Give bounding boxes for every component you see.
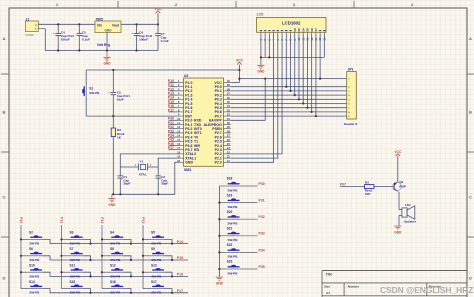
wire VCC rail to JP1 [239, 35, 346, 79]
wire net P34 [169, 136, 178, 138]
svg-text:S1: S1 [89, 86, 93, 90]
junction S8 column [101, 255, 103, 257]
net label P14 [177, 240, 183, 244]
svg-text:P13: P13 [141, 217, 145, 223]
svg-text:LCD1602: LCD1602 [282, 21, 301, 26]
svg-text:29: 29 [227, 125, 230, 129]
svg-text:SW-PB: SW-PB [70, 291, 81, 295]
svg-text:GND: GND [216, 282, 224, 286]
junction C2 gnd [157, 193, 159, 195]
svg-text:Y1: Y1 [140, 159, 144, 163]
junction C7 top [157, 23, 159, 25]
wire P0.0 bus [231, 35, 347, 87]
svg-text:SW-PB: SW-PB [151, 242, 162, 246]
svg-text:P35: P35 [259, 265, 265, 269]
capacitor C3 [108, 70, 130, 116]
svg-text:32: 32 [227, 113, 230, 117]
wire keypad column net P12 [101, 225, 103, 289]
svg-text:SW-PB: SW-PB [110, 274, 121, 278]
junction S9 column [142, 255, 144, 257]
capacitor C5 [77, 24, 91, 50]
wire XTAL1 to crystal [158, 158, 177, 167]
svg-text:SW-PB: SW-PB [70, 258, 81, 262]
svg-text:P30: P30 [259, 182, 265, 186]
svg-text:S15: S15 [70, 280, 76, 284]
svg-text:24: 24 [227, 146, 230, 150]
junction S23 [218, 268, 220, 270]
svg-text:SW-PB: SW-PB [29, 258, 40, 262]
wire P0.6 bus [231, 35, 347, 112]
zone number 3 [293, 2, 296, 7]
junction VL rail [268, 56, 270, 58]
svg-text:31: 31 [227, 117, 230, 121]
svg-text:33: 33 [227, 108, 230, 112]
junction D5 [306, 107, 308, 109]
wire resistor to base [374, 186, 394, 188]
wire VCC line to reset circuit [86, 69, 239, 71]
svg-text:SW-PB: SW-PB [151, 258, 162, 262]
net label P33 [168, 129, 174, 133]
svg-text:SW-PB: SW-PB [228, 222, 239, 226]
svg-text:35: 35 [227, 100, 230, 104]
svg-text:14: 14 [177, 134, 180, 138]
svg-text:P17: P17 [168, 108, 174, 112]
svg-text:22: 22 [227, 155, 230, 159]
junction C3 top [112, 69, 114, 71]
junction D7 [315, 115, 317, 117]
switch S4 [102, 231, 131, 246]
svg-text:Header 9: Header 9 [344, 122, 357, 126]
junction C4 top [57, 23, 59, 25]
svg-text:P2.0: P2.0 [215, 161, 222, 165]
svg-text:S20: S20 [227, 210, 233, 214]
junction S11 row [89, 275, 91, 277]
junction S4 column [101, 238, 103, 240]
switch S6 [21, 247, 50, 262]
svg-text:S22: S22 [227, 243, 233, 247]
svg-text:21: 21 [227, 159, 230, 163]
svg-text:P15: P15 [177, 256, 183, 260]
ground symbol speaker [394, 226, 402, 234]
junction VCC rail [238, 78, 240, 80]
capacitor C6 [131, 24, 152, 50]
net label P31 [259, 199, 265, 203]
net label P11 [168, 83, 174, 87]
wire net P31 [169, 124, 178, 126]
zone letter C right [469, 195, 472, 200]
svg-text:S5: S5 [151, 231, 155, 235]
svg-text:U3: U3 [184, 74, 188, 78]
net label P35 [168, 138, 174, 142]
zone number 4 [411, 2, 414, 7]
net label P34 [259, 248, 265, 252]
svg-text:P37: P37 [168, 146, 174, 150]
net label P37 [168, 146, 174, 150]
junction S12 row [130, 275, 132, 277]
switch S17 [143, 280, 172, 295]
net label P36 [168, 142, 174, 146]
zone letter D right [469, 276, 472, 281]
switch S7 [62, 247, 91, 262]
svg-text:P14: P14 [177, 240, 183, 244]
svg-text:30: 30 [227, 121, 230, 125]
svg-text:28: 28 [227, 129, 230, 133]
wire VCC to pin40 [231, 82, 240, 84]
svg-text:P11: P11 [59, 217, 63, 223]
wire P0.1 bus [231, 35, 347, 91]
junction S9 row [171, 259, 173, 261]
svg-text:PNP: PNP [399, 185, 405, 189]
junction S19 [218, 202, 220, 204]
wire XTAL2 to crystal [120, 154, 177, 167]
svg-text:10: 10 [177, 117, 180, 121]
svg-text:23: 23 [227, 150, 230, 154]
svg-text:GND: GND [257, 70, 265, 74]
svg-text:SW-PB: SW-PB [151, 291, 162, 295]
svg-text:P17: P17 [177, 289, 183, 293]
switch S9 [143, 247, 172, 262]
switch S12 [102, 264, 131, 279]
wire net P30 [169, 119, 178, 121]
svg-text:S6: S6 [29, 247, 33, 251]
svg-text:Vin: Vin [97, 24, 102, 28]
svg-text:P37: P37 [340, 182, 346, 186]
net label P37 speaker [340, 182, 346, 186]
switch S11 [62, 264, 91, 279]
svg-text:SW-PB: SW-PB [228, 205, 239, 209]
net label P35 [259, 265, 265, 269]
junction C1 gnd [119, 193, 121, 195]
net label P14 [168, 96, 174, 100]
svg-text:20: 20 [177, 159, 180, 163]
voltage regulator U2 7805 [95, 17, 121, 47]
power port VCC main [155, 7, 163, 24]
power port VCC speaker [394, 150, 402, 162]
switch S19 [219, 193, 257, 209]
wire net P15 [169, 103, 178, 105]
switch S3 [62, 231, 91, 246]
svg-text:S4: S4 [110, 231, 114, 235]
junction S2 column [20, 238, 22, 240]
junction S13 column [142, 271, 144, 273]
switch S10 [21, 264, 50, 279]
junction S5 column [142, 238, 144, 240]
svg-text:S9: S9 [151, 247, 155, 251]
wire net P11 [169, 86, 178, 88]
wire P0.2 bus [231, 35, 347, 96]
junction EA VCC [264, 78, 266, 80]
svg-text:P31: P31 [259, 199, 265, 203]
svg-text:19: 19 [177, 155, 180, 159]
svg-text:30pF: 30pF [123, 182, 130, 186]
svg-text:Title: Title [326, 273, 333, 277]
junction U2 gnd rail [106, 49, 108, 51]
junction S22 [218, 251, 220, 253]
connector J1 [25, 17, 45, 37]
svg-text:GND: GND [394, 230, 402, 234]
svg-text:S11: S11 [70, 264, 76, 268]
switch S16 [102, 280, 131, 295]
svg-text:26: 26 [227, 138, 230, 142]
capacitor C7 [155, 24, 169, 50]
junction S17 row [171, 292, 173, 294]
LCD module LCD1 [257, 12, 327, 40]
svg-text:38: 38 [227, 87, 230, 91]
switch S2 [21, 231, 50, 246]
svg-text:S10: S10 [29, 264, 35, 268]
net label P17 [168, 108, 174, 112]
svg-text:SW-PB: SW-PB [29, 242, 40, 246]
junction D6 [311, 111, 313, 113]
net label P34 [168, 134, 174, 138]
svg-text:P34: P34 [259, 248, 265, 252]
junction S6 column [20, 255, 22, 257]
net label P30 [168, 117, 174, 121]
zone letter A right [469, 36, 472, 41]
wire net P33 [169, 132, 178, 134]
capacitor C4 [53, 24, 74, 50]
svg-text:11: 11 [177, 121, 180, 125]
zone letter D left [3, 276, 6, 281]
svg-text:SW-PB: SW-PB [110, 258, 121, 262]
svg-text:8051: 8051 [184, 168, 192, 172]
wire net P13 [169, 94, 178, 96]
wire bottom ground rail [45, 29, 158, 51]
junction RST C3 [112, 115, 114, 117]
wire P0.4 bus [231, 35, 347, 104]
switch S23 [219, 260, 257, 276]
svg-text:SW-PB: SW-PB [29, 291, 40, 295]
junction D4 [302, 102, 304, 104]
svg-text:B: B [3, 110, 6, 115]
svg-text:16: 16 [177, 142, 180, 146]
svg-text:C: C [3, 195, 6, 200]
svg-text:Speaker: Speaker [404, 220, 417, 224]
wire base drive [340, 186, 364, 188]
wire net P32 [169, 128, 178, 130]
svg-text:17: 17 [177, 146, 180, 150]
junction S11 column [60, 271, 62, 273]
junction C5 top [78, 23, 80, 25]
wire LCD gnd rail [261, 35, 324, 58]
junction D2 [294, 94, 296, 96]
wire net P14 [169, 98, 178, 100]
wire net P12 [169, 90, 178, 92]
svg-text:12: 12 [177, 125, 180, 129]
svg-text:13: 13 [177, 129, 180, 133]
svg-text:C: C [469, 195, 472, 200]
wire net P35 [169, 140, 178, 142]
net label P31 [168, 121, 174, 125]
net label P13 [168, 92, 174, 96]
svg-text:Q1: Q1 [399, 180, 403, 184]
junction D0 [285, 86, 287, 88]
svg-text:S8: S8 [110, 247, 114, 251]
junction S7 column [60, 255, 62, 257]
svg-text:S16: S16 [110, 280, 116, 284]
zone letter C left [3, 195, 6, 200]
switch S20 [219, 210, 257, 226]
zone number 2 [175, 2, 178, 7]
net label P13 [141, 217, 145, 223]
svg-text:10uF: 10uF [117, 98, 124, 102]
wire top power rail [38, 23, 158, 25]
connector JP1 [344, 68, 357, 126]
svg-text:40: 40 [227, 79, 230, 83]
net label P16 [168, 104, 174, 108]
svg-text:Vout: Vout [112, 24, 120, 28]
svg-text:SW-PB: SW-PB [151, 274, 162, 278]
svg-text:LCD: LCD [257, 12, 264, 16]
junction BLA rail [319, 78, 321, 80]
wire keypad row net P16 [50, 275, 188, 277]
wire U2 ground pin [106, 33, 108, 51]
wire P0.7 bus [231, 35, 347, 117]
crystal Y1 [120, 159, 158, 176]
power port VCC mcu [236, 59, 244, 83]
svg-text:S18: S18 [227, 177, 233, 181]
wire LCD control line row 18 [231, 35, 282, 154]
svg-text:34: 34 [227, 104, 230, 108]
svg-text:S13: S13 [151, 264, 157, 268]
junction D1 [289, 90, 291, 92]
svg-text:100uF: 100uF [139, 37, 148, 41]
wire net P36 [169, 145, 178, 147]
svg-text:S23: S23 [227, 260, 233, 264]
svg-text:0.1uF: 0.1uF [161, 39, 169, 43]
switch S18 [219, 177, 257, 193]
wire RST net [86, 115, 177, 117]
svg-text:S17: S17 [151, 280, 157, 284]
switch S13 [143, 264, 172, 279]
junction S15 row [89, 292, 91, 294]
net label P17 [177, 289, 183, 293]
junction VSS rail [260, 56, 262, 58]
net label P10 [19, 217, 23, 223]
net label P12 [168, 87, 174, 91]
speaker LS1 [402, 203, 417, 223]
svg-text:37: 37 [227, 92, 230, 96]
junction S3 row [89, 243, 91, 245]
net label P32 [168, 125, 174, 129]
svg-text:10K: 10K [365, 192, 371, 196]
svg-text:15: 15 [177, 138, 180, 142]
wire net P17 [169, 111, 178, 113]
net label P30 [259, 182, 265, 186]
svg-text:SW-PB: SW-PB [110, 242, 121, 246]
svg-text:S2: S2 [29, 231, 33, 235]
net label P33 [259, 232, 265, 236]
junction D3 [298, 98, 300, 100]
net label P12 [100, 217, 104, 223]
switch S15 [62, 280, 91, 295]
junction S10 column [20, 271, 22, 273]
junction S13 row [171, 275, 173, 277]
svg-text:CON2: CON2 [25, 33, 34, 37]
net label P10 [168, 79, 174, 83]
wire crystal ground rail [112, 162, 177, 194]
svg-text:SW-PB: SW-PB [228, 238, 239, 242]
junction C5 bottom [78, 49, 80, 51]
ground symbol power rail [103, 51, 111, 66]
svg-text:XTAL: XTAL [139, 172, 147, 176]
svg-text:P12: P12 [100, 217, 104, 223]
svg-text:30pF: 30pF [161, 182, 168, 186]
junction S5 row [171, 243, 173, 245]
junction S20 [218, 218, 220, 220]
svg-text:SW-PB: SW-PB [70, 274, 81, 278]
svg-text:A4: A4 [326, 291, 330, 295]
wire keypad row net P17 [50, 292, 188, 294]
zone letter B left [3, 110, 6, 115]
switch S22 [219, 243, 257, 259]
svg-text:B: B [469, 110, 472, 115]
svg-text:S3: S3 [70, 231, 74, 235]
wire keypad row net P14 [50, 243, 188, 245]
svg-text:GND: GND [185, 161, 193, 165]
svg-text:39: 39 [227, 83, 230, 87]
capacitor C1 [118, 167, 131, 194]
svg-text:Size: Size [324, 284, 330, 288]
wire net P10 [169, 82, 178, 84]
ground symbol buttons [216, 277, 224, 285]
svg-text:S19: S19 [227, 193, 233, 197]
switch S1 reset [82, 70, 100, 116]
wire net P16 [169, 107, 178, 109]
svg-text:A: A [469, 36, 472, 41]
junction S7 row [89, 259, 91, 261]
net label P11 [59, 217, 63, 223]
capacitor C2 [155, 167, 168, 194]
wire collector to speaker [399, 192, 402, 226]
svg-text:SW-PB: SW-PB [228, 188, 239, 192]
svg-text:S21: S21 [227, 227, 233, 231]
junction S12 column [101, 271, 103, 273]
svg-text:36: 36 [227, 96, 230, 100]
net label P15 [177, 256, 183, 260]
wire keypad row net P15 [50, 259, 188, 261]
junction C6 top [135, 23, 137, 25]
svg-text:Volt Reg: Volt Reg [97, 43, 110, 47]
svg-text:JP1: JP1 [348, 68, 354, 72]
watermark [380, 285, 473, 295]
zone letter A left [3, 36, 6, 41]
junction S21 [218, 235, 220, 237]
wire EA to VCC [231, 79, 265, 121]
wire button column ground bus [218, 186, 220, 277]
net label P16 [177, 273, 183, 277]
ground symbol crystal [108, 194, 116, 207]
wire LCD control line row 20 [231, 35, 274, 163]
svg-text:P10: P10 [19, 217, 23, 223]
svg-text:GND: GND [104, 28, 112, 32]
svg-text:0.1uF: 0.1uF [82, 37, 90, 41]
title block [322, 271, 467, 297]
wire net P37 [169, 149, 178, 151]
junction R3 gnd [112, 193, 114, 195]
wire keypad column net P10 [20, 225, 22, 289]
svg-text:SW-PB: SW-PB [70, 242, 81, 246]
switch S8 [102, 247, 131, 262]
junction S16 row [130, 292, 132, 294]
wire P0.5 bus [231, 35, 347, 108]
svg-text:GND: GND [108, 203, 116, 207]
resistor R3 [111, 116, 124, 194]
junction VCC reset line [238, 69, 240, 71]
svg-text:D: D [3, 276, 6, 281]
net label P15 [168, 100, 174, 104]
junction S4 row [130, 243, 132, 245]
